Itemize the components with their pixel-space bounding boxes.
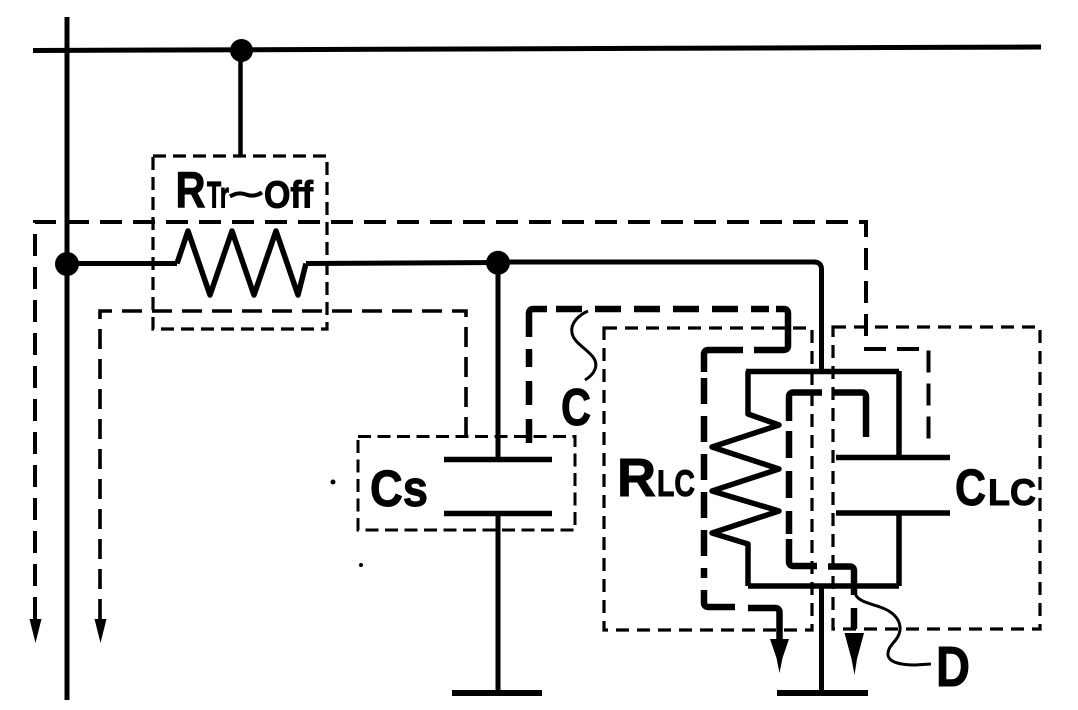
- heavy dashed storage path C top run: [556, 306, 769, 313]
- svg-text:C: C: [561, 379, 591, 437]
- speck dot left of Cs box: [331, 480, 336, 485]
- arrow stem D dash: [851, 608, 858, 629]
- box RTr-Off dashed: [153, 156, 327, 329]
- arrowhead outer box bottom: [30, 619, 42, 643]
- heavy bracket dashed middle: [786, 431, 793, 534]
- wire junction to RTr-Off box: [238, 50, 243, 157]
- wire LC top bar: [746, 369, 899, 375]
- arrowhead storage path: [770, 639, 789, 673]
- capacitor Cs top plate: [444, 457, 552, 463]
- box RLC dashed: [604, 328, 812, 630]
- svg-text:D: D: [936, 635, 970, 699]
- svg-text:Cs: Cs: [370, 460, 428, 517]
- leader squiggle to label D: [855, 593, 931, 665]
- heavy stub out of CLC bottom: [828, 567, 854, 596]
- wire top horizontal gate line: [33, 47, 1041, 51]
- heavy bracket top corner at TFT node: [789, 393, 822, 422]
- heavy dashed storage path C left riser: [526, 349, 533, 443]
- wire LC to bottom terminal: [819, 586, 824, 693]
- svg-text:Tr: Tr: [207, 175, 229, 216]
- svg-text:C: C: [955, 459, 986, 516]
- heavy bracket bottom corner: [789, 539, 817, 566]
- arrowhead second box bottom: [95, 619, 107, 643]
- node junction dot center: [486, 251, 510, 275]
- resistor RLC vertical zigzag: [712, 371, 779, 586]
- wire resistor to center node: [306, 263, 499, 264]
- heavy storage path C bottom-left elbow: [704, 590, 735, 607]
- node junction dot on data line: [55, 252, 79, 276]
- terminal bar under Cs: [452, 690, 542, 696]
- wire center node down to Cs: [496, 262, 501, 458]
- arrowhead D: [845, 633, 865, 675]
- heavy storage path C left elbow: [704, 350, 743, 372]
- box CLC dashed: [833, 327, 1040, 629]
- capacitor CLC top plate: [836, 455, 950, 461]
- box outer pixel dashed outline: [35, 222, 929, 619]
- box Cs dashed: [358, 437, 575, 531]
- wire node to resistor left lead: [67, 261, 177, 266]
- leader squiggle to label C: [572, 311, 596, 380]
- terminal bar bottom right: [777, 690, 868, 696]
- heavy stub into CLC top: [832, 393, 866, 438]
- svg-text:LC: LC: [988, 472, 1036, 513]
- wire CLC top connector: [896, 371, 902, 457]
- wire left vertical data line: [65, 17, 70, 700]
- svg-text:R: R: [617, 448, 656, 508]
- node junction dot on gate line: [230, 39, 253, 62]
- svg-text:LC: LC: [657, 463, 695, 504]
- heavy storage path C top-left corner: [529, 309, 547, 337]
- speck dot below Cs box: [359, 563, 363, 567]
- capacitor CLC bottom plate: [836, 510, 950, 516]
- resistor RTr-Off zigzag: [177, 231, 306, 295]
- heavy storage path C right hook: [754, 309, 788, 350]
- svg-text:Off: Off: [264, 175, 313, 217]
- wire CLC bottom connector: [896, 513, 902, 586]
- label tilde-dash of RTr-Off: [230, 193, 262, 197]
- svg-text:R: R: [176, 162, 206, 219]
- wire center node to LC corner and down: [499, 262, 822, 371]
- wire Cs to ground terminal: [496, 514, 501, 694]
- capacitor Cs bottom plate: [444, 511, 552, 517]
- wire LC bottom bar: [748, 583, 899, 589]
- box second inner dashed outline: [100, 311, 466, 619]
- heavy storage path C bottom corner and arrow stem: [748, 608, 780, 640]
- heavy dashed storage path C left descent: [701, 378, 708, 578]
